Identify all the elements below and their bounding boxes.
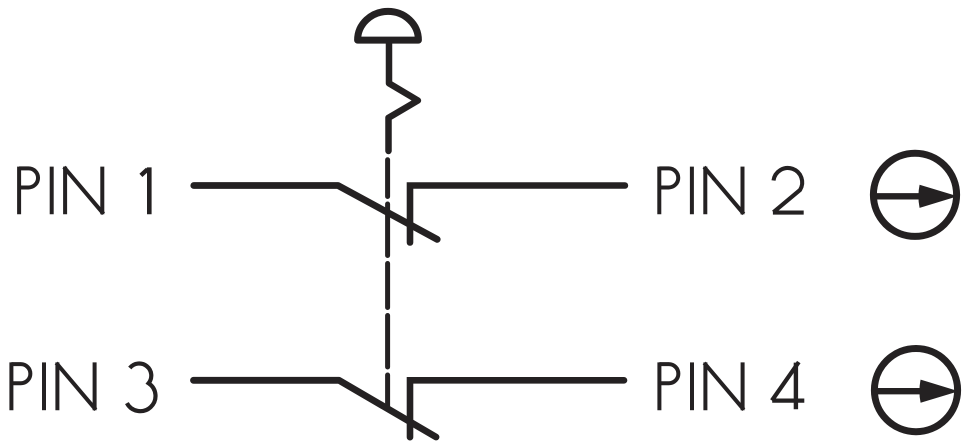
wire PIN 3 and movable contact lever (bottom pole) xyxy=(194,380,437,437)
letter N xyxy=(63,167,67,215)
letter P xyxy=(657,167,661,215)
digit 1 xyxy=(141,169,148,175)
letter I xyxy=(42,362,46,410)
letter N xyxy=(703,167,707,215)
direction icon for PIN 4 (circle with arrow) xyxy=(873,349,959,432)
push-button actuator dome xyxy=(358,11,419,40)
label PIN 2 xyxy=(659,167,803,215)
label PIN 4 xyxy=(659,362,804,410)
letter I xyxy=(690,167,694,215)
label PIN 1 xyxy=(19,167,149,215)
letter P xyxy=(17,167,21,215)
digit 2 xyxy=(773,168,802,212)
fixed contact and wire PIN 2 xyxy=(410,186,625,243)
direction icon for PIN 2 (circle with arrow) xyxy=(872,153,958,236)
wire PIN 1 and movable contact lever (top pole) xyxy=(194,186,437,240)
letter I xyxy=(50,167,54,215)
letter P xyxy=(9,362,13,410)
letter I xyxy=(690,362,694,410)
letter N xyxy=(55,362,59,410)
label PIN 3 xyxy=(11,362,155,411)
digit 3 xyxy=(127,364,156,412)
fixed contact and wire PIN 4 xyxy=(410,380,624,437)
digit 4 xyxy=(772,362,799,400)
letter P xyxy=(657,362,661,410)
letter N xyxy=(703,362,707,410)
mechanical linkage dashed line xyxy=(385,160,390,407)
actuator stem with kink xyxy=(389,43,418,151)
